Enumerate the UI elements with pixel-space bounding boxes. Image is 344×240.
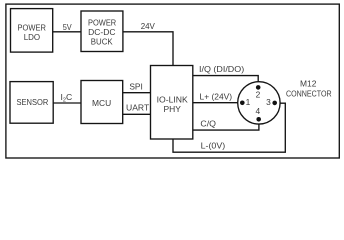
- svg-text:SPI: SPI: [129, 82, 143, 92]
- svg-text:PHY: PHY: [164, 104, 182, 114]
- svg-text:I/Q (DI/DO): I/Q (DI/DO): [199, 64, 244, 74]
- svg-text:CONNECTOR: CONNECTOR: [286, 89, 332, 99]
- block POWER DC-DC BUCK: [81, 11, 123, 52]
- svg-text:SENSOR: SENSOR: [17, 97, 49, 107]
- wire SPI: [123, 92, 151, 94]
- border frame: [6, 4, 339, 158]
- svg-text:DC-DC: DC-DC: [88, 27, 115, 37]
- wire L+ (24V): [193, 102, 243, 104]
- svg-text:1: 1: [246, 97, 251, 107]
- block POWER LDO: [11, 9, 53, 53]
- block SENSOR: [10, 82, 53, 124]
- block IO-LINK PHY: [151, 66, 193, 140]
- wire UART: [123, 113, 151, 115]
- svg-text:L+ (24V): L+ (24V): [200, 91, 233, 101]
- pin 2: [256, 85, 261, 90]
- wire C/Q: [193, 119, 259, 130]
- svg-text:BUCK: BUCK: [91, 36, 113, 46]
- svg-text:POWER: POWER: [88, 17, 116, 27]
- wire 5V: [53, 31, 81, 33]
- svg-text:MCU: MCU: [92, 98, 111, 108]
- svg-text:2: 2: [256, 89, 261, 99]
- wire I2C: [53, 102, 81, 104]
- wire L-(0V): [173, 103, 285, 152]
- label M12 CONNECTOR: [286, 79, 332, 99]
- svg-text:4: 4: [255, 106, 260, 116]
- svg-text:24V: 24V: [141, 21, 155, 31]
- svg-text:C/Q: C/Q: [200, 118, 216, 128]
- svg-text:L-(0V): L-(0V): [201, 140, 226, 150]
- wire I/Q (DI/DO): [193, 76, 258, 88]
- svg-text:M12: M12: [300, 79, 317, 89]
- block MCU: [81, 81, 123, 124]
- svg-text:LDO: LDO: [24, 32, 41, 42]
- svg-text:I2C: I2C: [61, 92, 73, 104]
- pin 3: [272, 101, 277, 106]
- pin 4: [256, 117, 261, 122]
- svg-text:UART: UART: [126, 103, 150, 113]
- M12 connector circle: [238, 82, 280, 124]
- svg-text:3: 3: [266, 97, 271, 107]
- wire 24V: [123, 32, 173, 66]
- svg-text:5V: 5V: [63, 22, 72, 32]
- pin 1: [240, 101, 245, 106]
